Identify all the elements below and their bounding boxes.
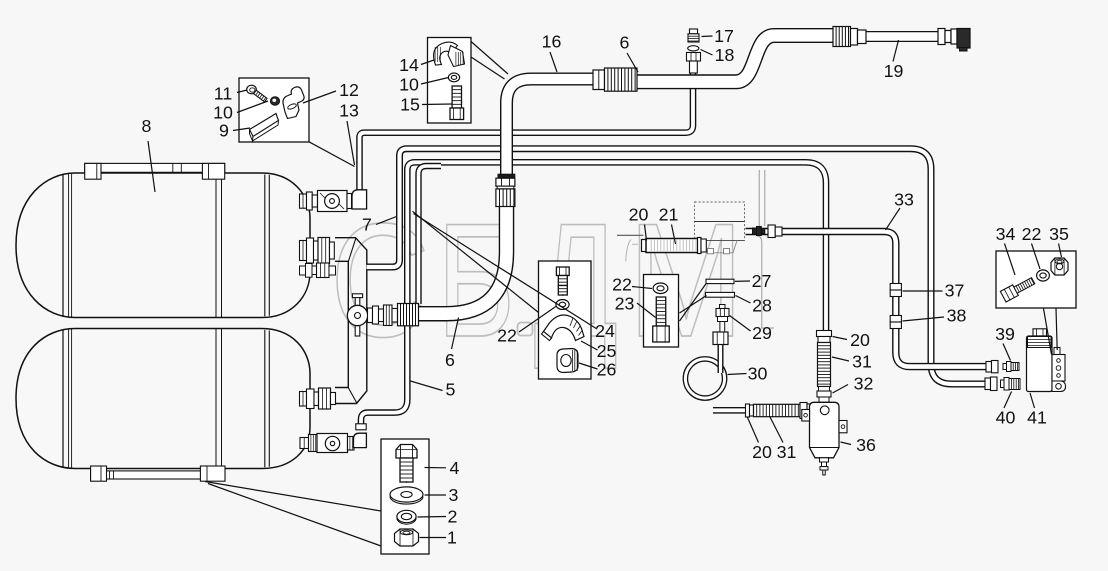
detail box parts 1-4 (381, 439, 429, 554)
leader 10b (421, 78, 449, 85)
svg-text:40: 40 (996, 408, 1016, 428)
leader 28 mount line (680, 296, 707, 314)
leader 37 (903, 290, 943, 292)
union under fitting 29 (713, 332, 728, 345)
pipe coil to moisture trap (713, 407, 746, 414)
drain valve on lower tank (pipe 5 start) (300, 438, 309, 449)
bolt 24 (556, 267, 569, 276)
leader 22a (519, 307, 556, 333)
svg-text:35: 35 (1049, 224, 1069, 244)
svg-text:25: 25 (597, 341, 617, 361)
hose 21 (642, 240, 649, 252)
svg-text:17: 17 (714, 26, 734, 46)
leader 32 (833, 385, 849, 394)
fitting 32 (819, 387, 830, 392)
wire riser to pipe 33 fitting (758, 170, 760, 226)
clamp 25 (544, 315, 585, 340)
svg-text:9: 9 (219, 121, 229, 141)
bracket 12 (283, 87, 304, 119)
leader 31b (770, 417, 783, 443)
leader 7 (376, 217, 397, 225)
leader 34 (1005, 244, 1016, 276)
wire pipe 7 long run (367, 149, 987, 384)
valve outlet fittings chain (368, 308, 373, 323)
leader 2 (418, 516, 447, 519)
leader 12 (303, 91, 336, 103)
hose coupler 19 left (833, 27, 851, 47)
shut-off cock on inter-tank pipe (355, 296, 360, 337)
svg-text:12: 12 (339, 80, 359, 100)
washer 3 (390, 487, 423, 502)
leader 5 (411, 381, 443, 391)
detail box parts 24,22,25,26 (539, 261, 592, 379)
phantom stub left of hose 21 (617, 234, 644, 236)
svg-text:13: 13 (339, 101, 359, 121)
svg-text:18: 18 (715, 45, 735, 65)
leader long diag to label 24 (414, 214, 598, 330)
svg-text:14: 14 (399, 55, 419, 75)
coupling 37 (890, 284, 901, 291)
lower tank mounting strip (91, 471, 225, 479)
leader 16 (550, 52, 557, 72)
leader box34 -> 41 (1044, 309, 1052, 355)
leader 9 (233, 128, 250, 131)
svg-text:15: 15 (400, 94, 420, 114)
leader 20a (645, 225, 647, 241)
hose 6 middle run with S-bend (632, 36, 836, 82)
inter-tank connecting pipe (335, 238, 367, 404)
detail box parts 9-12 (239, 78, 309, 142)
pipe 19 thin section (862, 31, 942, 42)
tank port (pipe 7) (300, 266, 306, 275)
apparatus 41 (1033, 329, 1047, 336)
leader 29 (730, 316, 751, 332)
detail box parts 34,22,35 (996, 251, 1076, 308)
leader 41 (1030, 393, 1035, 408)
bolt 34 (1000, 275, 1036, 302)
leader tank->box1-4 (b) (208, 484, 381, 547)
leader 27 mount line (680, 283, 707, 321)
svg-text:10: 10 (399, 74, 419, 94)
leader 15 (422, 103, 452, 106)
leader 3 (425, 494, 447, 496)
wire pipe 33 (746, 232, 989, 367)
bolt 23 (656, 297, 666, 326)
svg-text:16: 16 (542, 32, 562, 52)
leader 10a (237, 101, 268, 113)
svg-text:8: 8 (142, 116, 152, 136)
nut 1 (395, 529, 419, 546)
leader tank->box1-4 (a) (205, 482, 381, 512)
svg-text:5: 5 (446, 380, 456, 400)
hose 31 (vertical run) (818, 343, 831, 387)
svg-text:31: 31 (777, 442, 797, 462)
washer 22 (in box) (556, 300, 569, 310)
lower tank port (duct lower) (300, 392, 307, 407)
svg-text:23: 23 (615, 294, 635, 314)
pipe 19 right end fitting (938, 29, 945, 45)
nut 22b (653, 283, 668, 294)
air reservoir (lower tank) (16, 329, 310, 469)
svg-text:С: С (330, 190, 430, 371)
svg-text:11: 11 (214, 84, 233, 104)
hose 16 upper pipe section (507, 79, 596, 177)
leader box9 corner (309, 142, 355, 167)
leader 14 (421, 60, 434, 65)
svg-text:24: 24 (595, 321, 615, 341)
leader 22b (632, 287, 652, 289)
leader 19 (893, 40, 899, 62)
washer 22c (1037, 270, 1050, 281)
svg-text:4: 4 (450, 458, 460, 478)
svg-text:27: 27 (752, 271, 772, 291)
bolt 15 (452, 86, 461, 108)
hose 31 (bottom run) (754, 404, 801, 416)
leader 26 (579, 363, 598, 369)
plate 9 (250, 114, 279, 137)
upper tank mounting strip (85, 163, 225, 172)
trap drain valve (820, 458, 829, 462)
coupling 20 (vertical run) (817, 331, 832, 337)
hose 16 lower wide section (418, 203, 507, 314)
leader 17 (702, 35, 713, 38)
leader 35 (1059, 244, 1062, 258)
leader 1 (420, 537, 447, 539)
wire pipe 5 long run (361, 162, 826, 429)
svg-text:2: 2 (448, 507, 458, 527)
leader 21 (672, 225, 676, 245)
leader 20b (748, 418, 759, 443)
trap bracket right (839, 421, 847, 433)
leader 18 (701, 50, 713, 56)
svg-text:34: 34 (996, 224, 1016, 244)
leader 36 (841, 442, 852, 445)
lower tank seams (62, 329, 64, 468)
spring washer 2 (397, 510, 416, 522)
phantom pipe drop to apparatus (757, 236, 774, 328)
leader box14 corner 2 (471, 57, 505, 79)
phantom apparatus outline (695, 202, 745, 241)
leader 22c (1032, 244, 1041, 270)
leader 27 (735, 280, 750, 282)
svg-text:22: 22 (497, 326, 517, 346)
elbow fitting to pipe 13 (352, 190, 367, 209)
coupling 20 (bottom run) (746, 404, 750, 417)
leader 6a (627, 53, 638, 72)
wire pipe branch to shut-off valve (419, 166, 442, 304)
strip 28 (706, 292, 735, 297)
leader 8 (148, 141, 155, 192)
coupling 38 (890, 316, 901, 323)
svg-text:39: 39 (995, 324, 1015, 344)
svg-text:33: 33 (894, 190, 914, 210)
washer 10 (270, 97, 279, 105)
wire pipe 13 (360, 62, 694, 190)
leader 38 (903, 317, 945, 321)
clamp 14 (434, 42, 458, 65)
tank valve assembly (parts 11-13 attach) (300, 194, 307, 208)
union into trap (800, 403, 807, 419)
leader 20c (833, 337, 848, 340)
connector 39 (1003, 364, 1007, 370)
coiled pipe 30 (685, 359, 724, 398)
svg-text:6: 6 (445, 350, 455, 370)
leader box34 -> 41 (2) (1056, 309, 1057, 351)
svg-text:41: 41 (1027, 408, 1047, 428)
leader box14 corner 1 (471, 42, 508, 75)
washer 10b (448, 73, 459, 82)
leader 4 (425, 467, 447, 469)
bleed fitting 17/18 on hose (690, 29, 698, 34)
svg-text:22: 22 (1022, 224, 1042, 244)
bolt 11 (247, 85, 257, 94)
tank port (duct upper) (300, 241, 307, 261)
leader 39 (1003, 344, 1011, 361)
svg-text:32: 32 (854, 374, 874, 394)
svg-text:28: 28 (752, 296, 772, 316)
detail box parts 22,23 (644, 275, 679, 348)
leader 30 (728, 374, 747, 375)
leader 33 (886, 208, 901, 230)
svg-text:22: 22 (612, 275, 632, 295)
trap bracket left (802, 410, 810, 422)
connector 40 (1001, 380, 1005, 388)
nut 35 (1051, 258, 1068, 275)
leader 28 (736, 296, 751, 304)
svg-text:20: 20 (850, 330, 870, 350)
svg-text:31: 31 (852, 352, 872, 372)
leader 13 (347, 121, 355, 165)
leader 31c (832, 357, 849, 361)
leader 11 (237, 90, 247, 93)
fitting 29 (720, 305, 726, 309)
leader 23 (637, 303, 656, 318)
svg-text:36: 36 (856, 435, 876, 455)
hose coupler on vertical hose (498, 174, 515, 178)
leader long diag to box24 (413, 211, 539, 312)
bolt 4 (396, 445, 417, 459)
air reservoir 8 (upper tank) (16, 173, 310, 318)
svg-text:19: 19 (884, 61, 904, 81)
moisture trap 36 body (810, 402, 840, 458)
clamp 26 (557, 349, 578, 373)
detail box parts 14,10,15 (428, 38, 472, 124)
svg-text:3: 3 (449, 485, 459, 505)
pipe 33 end fitting (986, 362, 992, 373)
coil inlet stub (718, 344, 724, 373)
upper tank seams (62, 174, 64, 317)
svg-text:38: 38 (947, 306, 967, 326)
svg-text:20: 20 (752, 442, 772, 462)
pipe 7 end fitting (985, 378, 991, 390)
svg-text:7: 7 (362, 215, 372, 235)
svg-text:37: 37 (945, 281, 965, 301)
svg-text:30: 30 (748, 364, 768, 384)
hose coupler (label 16/6 joint) (593, 70, 605, 90)
svg-text:29: 29 (752, 323, 772, 343)
strip 27 (706, 279, 734, 283)
svg-text:1: 1 (447, 528, 457, 548)
svg-text:6: 6 (620, 33, 630, 53)
svg-text:20: 20 (629, 205, 649, 225)
leader 40 (1004, 392, 1012, 409)
leader 25 (581, 341, 598, 350)
svg-text:21: 21 (659, 205, 679, 225)
svg-text:26: 26 (597, 360, 617, 380)
pipe 33 start fitting (753, 228, 757, 234)
leader 6b (452, 318, 459, 350)
